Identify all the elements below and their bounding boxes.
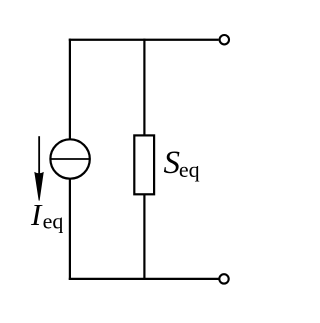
terminal bottom (open circle) — [219, 274, 228, 283]
wire left vertical (lower, from current source) — [69, 179, 71, 280]
svg-text:eq: eq — [179, 157, 200, 182]
current source bar — [50, 158, 89, 160]
svg-text:I: I — [30, 197, 43, 232]
svg-text:eq: eq — [43, 209, 64, 234]
wire left vertical (upper, to current source) — [69, 39, 71, 139]
wire middle vertical (upper, to box) — [143, 39, 145, 137]
impedance box S_eq — [134, 135, 154, 194]
wire middle vertical (lower, from box) — [143, 193, 145, 280]
svg-text:S: S — [164, 145, 181, 181]
arrow shaft (current direction) — [38, 136, 40, 176]
current source U (circle) — [50, 139, 89, 178]
terminal top (open circle) — [220, 35, 229, 44]
wire bottom horizontal — [69, 278, 219, 280]
arrowhead — [34, 172, 43, 201]
wire top horizontal — [69, 39, 219, 41]
